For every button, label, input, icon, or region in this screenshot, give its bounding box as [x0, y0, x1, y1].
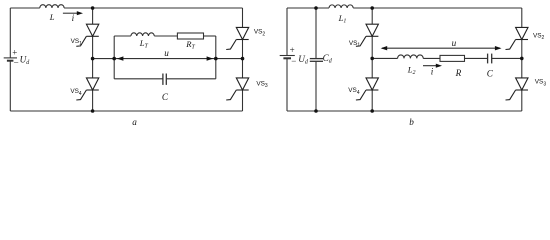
svg-text:−: −	[14, 57, 19, 67]
svg-text:VS3: VS3	[256, 80, 268, 89]
svg-text:C: C	[162, 92, 169, 102]
inductor L (a top)	[40, 5, 64, 8]
wire: VS2 cathode to mid bus	[242, 40, 244, 59]
capacitor C (a): left plate	[162, 74, 164, 85]
svg-text:Cd: Cd	[323, 53, 333, 64]
resistor R	[440, 55, 465, 61]
wire: VS4' anode from mid node	[371, 58, 373, 78]
junction: a mid bus right	[241, 57, 245, 61]
thyristor VS2	[226, 27, 249, 49]
junction: a mid bus left	[91, 57, 95, 61]
junction: a bottom node	[91, 109, 95, 113]
arrow line: current i (a)	[63, 12, 78, 14]
arrowhead: u (b) left	[381, 46, 388, 50]
svg-text:i: i	[72, 13, 75, 23]
wire: VS1 anode from top bus	[92, 8, 94, 24]
svg-text:VS4: VS4	[348, 87, 360, 96]
junction: a loop right	[214, 57, 218, 61]
resistor RT	[177, 33, 203, 39]
wire: VS3' cathode to bottom bus	[521, 90, 523, 111]
arrowhead: u (a) right	[207, 56, 214, 60]
svg-text:VS4: VS4	[70, 88, 82, 97]
svg-text:RT: RT	[185, 39, 195, 50]
wire: a top bus right	[64, 7, 242, 9]
wire: VS4 cathode to bottom bus	[92, 90, 94, 111]
wire: loop bottom branch left segment	[114, 78, 163, 80]
svg-text:Ud: Ud	[298, 54, 309, 65]
svg-text:L1: L1	[338, 13, 347, 24]
arrow line: current i (b)	[423, 65, 440, 67]
wire: b left vertical lower	[286, 58, 288, 111]
junction: a loop left	[112, 57, 116, 61]
svg-text:L: L	[49, 12, 55, 22]
arrowhead: u (a) left	[117, 56, 124, 60]
junction: b mid left	[370, 57, 374, 61]
capacitor C (a): right plate	[165, 74, 167, 85]
battery Ud (a): long plate	[4, 57, 17, 59]
wire: Cd branch lower	[315, 61, 317, 111]
capacitor Cd: top plate	[310, 58, 323, 60]
svg-text:L2: L2	[407, 65, 416, 76]
svg-text:R: R	[455, 68, 462, 78]
wire: VS2' cathode to mid node	[521, 40, 523, 59]
capacitor C (b): right plate	[491, 54, 493, 64]
arrowhead: i (b)	[436, 64, 442, 68]
svg-text:VS2: VS2	[533, 32, 545, 41]
wire: b load branch segment R to C	[465, 57, 488, 59]
svg-text:Ud: Ud	[20, 55, 31, 66]
inductor LT	[131, 33, 154, 36]
svg-text:−: −	[291, 56, 296, 66]
wire: VS4 anode from mid bus	[92, 59, 94, 78]
junction: b mid right	[520, 57, 524, 61]
junction: b Cd top	[314, 6, 318, 10]
wire: VS4' cathode to bottom bus	[371, 90, 373, 111]
svg-text:+: +	[290, 45, 295, 55]
wire: load loop left vertical	[113, 36, 115, 79]
junction: b top node	[370, 6, 374, 10]
junction: b Cd bottom	[314, 109, 318, 113]
wire: b bottom bus	[287, 110, 522, 112]
junction: a top node	[91, 6, 95, 10]
thyristor VS1'	[356, 24, 379, 46]
wire: loop top branch middle segment	[154, 35, 177, 37]
svg-text:u: u	[164, 48, 169, 58]
wire: VS1' cathode to mid node	[371, 36, 373, 58]
capacitor C (b): left plate	[487, 54, 489, 64]
battery Ud (a): short plate	[7, 60, 13, 62]
svg-text:C: C	[487, 69, 494, 79]
wire: VS2' anode from top bus	[521, 8, 523, 27]
wire: Cd branch upper	[315, 8, 317, 59]
thyristor VS4	[76, 78, 99, 100]
wire: a middle bus	[93, 58, 243, 60]
inductor L2	[398, 55, 424, 59]
wire: b left vertical upper	[286, 8, 288, 56]
wire: b load branch left segment	[372, 57, 397, 59]
svg-text:u: u	[452, 38, 457, 48]
arrow line: voltage u (b)	[382, 47, 500, 49]
svg-text:VS2: VS2	[254, 29, 266, 38]
thyristor VS4'	[356, 78, 379, 100]
svg-text:+: +	[12, 48, 17, 58]
svg-text:VS3: VS3	[535, 79, 547, 88]
battery Ud (b): long plate	[280, 55, 295, 57]
wire: loop top branch right segment	[204, 35, 216, 37]
capacitor Cd: bottom plate	[310, 60, 323, 62]
wire: VS3' anode from mid node	[521, 58, 523, 78]
thyristor VS3'	[506, 78, 529, 100]
junction: b bottom node	[370, 109, 374, 113]
wire: VS2 anode from top bus	[242, 8, 244, 27]
arrowhead: u (b) right	[495, 46, 502, 50]
wire: VS3 anode from mid bus	[242, 59, 244, 78]
wire: b load branch right segment	[492, 57, 522, 59]
inductor L1 (b top)	[329, 5, 353, 8]
wire: a bottom bus	[10, 110, 242, 112]
wire: a left vertical upper	[9, 8, 11, 58]
wire: a top bus left	[10, 7, 40, 9]
wire: VS1 cathode to mid bus	[92, 36, 94, 58]
wire: loop top branch left segment	[114, 35, 131, 37]
wire: b top bus left	[287, 7, 329, 9]
svg-text:VS1: VS1	[349, 40, 361, 49]
arrowhead: i (a)	[77, 11, 83, 15]
battery Ud (b): short plate	[283, 57, 291, 59]
svg-text:LT: LT	[139, 38, 149, 49]
thyristor VS1	[76, 24, 99, 46]
wire: loop bottom branch right segment	[166, 78, 216, 80]
wire: VS1' anode from top bus	[371, 8, 373, 24]
wire: a left vertical lower	[9, 61, 11, 111]
svg-text:b: b	[409, 117, 414, 127]
thyristor VS3	[226, 78, 249, 100]
svg-text:VS1: VS1	[71, 38, 83, 47]
wire: VS3 cathode to bottom bus	[242, 90, 244, 111]
thyristor VS2'	[506, 27, 529, 49]
wire: b load branch segment L2 to R	[423, 57, 440, 59]
svg-text:i: i	[431, 67, 434, 77]
wire: b top bus right	[353, 7, 522, 9]
wire: load loop right vertical	[215, 36, 217, 79]
svg-text:a: a	[132, 117, 137, 127]
